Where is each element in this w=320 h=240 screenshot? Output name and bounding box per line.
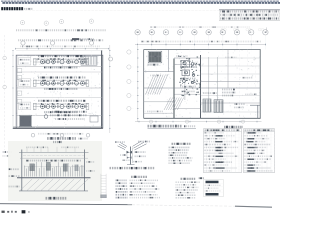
left plan interior column line e (64, 55, 66, 128)
schedule table left column lines (207, 129, 240, 173)
right plan room wall vertical 4 (216, 57, 218, 101)
right plan room wall vertical 1 (167, 50, 169, 72)
right plan room wall vertical 5 (227, 50, 229, 89)
schedule table left border (204, 129, 242, 173)
section top line (19, 151, 89, 153)
left plan bottom bubbles (31, 133, 35, 137)
left plan equipment row R3 bracket (33, 103, 36, 109)
left plan top grid bubbles (21, 41, 25, 45)
left plan top dimension text below (20, 45, 100, 47)
left plan top dimension text row 1 (16, 29, 106, 31)
right plan bottom dimension line (135, 121, 262, 123)
left plan equipment row R3 chain pipe (33, 106, 88, 108)
right plan corridor wall heavy 2 (200, 55, 202, 118)
section equipment strokes (25, 162, 83, 177)
scan noise left plan (16, 55, 103, 127)
riser detail caption (110, 167, 155, 169)
section left wall (21, 150, 23, 192)
left plan equipment row R3 label below (44, 111, 78, 113)
schedule table left row lines (204, 135, 242, 170)
left plan far-left text (3, 151, 12, 153)
right plan column line dashed a (238, 50, 240, 119)
left plan interior wall 2b (16, 97, 103, 99)
left plan interior column line c (91, 46, 93, 129)
section upper line 2 (20, 157, 88, 159)
left plan far-left bubble B (3, 85, 7, 89)
left plan interior wall 1 (16, 66, 103, 68)
right plan center dense cluster (179, 56, 201, 95)
ladder riser bar (100, 174, 102, 198)
section hatch below floor (20, 179, 88, 190)
right plan striped unit A (203, 99, 211, 112)
scan noise right plan (144, 50, 261, 118)
right plan top dimension text (141, 41, 261, 43)
left plan equipment row R3 label above (38, 100, 86, 102)
left plan equipment row R2 label below (44, 88, 78, 90)
section right wall (84, 150, 86, 192)
left plan top dimension text row 2 (18, 39, 104, 41)
mini title table bold row 2 (206, 193, 219, 196)
left plan equipment row R2 tank (19, 79, 31, 87)
left plan equipment row R2 bracket (33, 80, 36, 86)
left plan outline (16, 49, 103, 51)
right plan outer walls (144, 49, 261, 51)
schedule table right header row (245, 129, 274, 131)
section ceiling pipes (23, 154, 84, 156)
schedule table right cell text (244, 132, 261, 134)
left plan equipment row R1 label above (38, 55, 86, 57)
schedule table left cell text (204, 132, 223, 134)
riser detail right branch (133, 141, 147, 150)
left plan bottom wall heavy (13, 127, 103, 129)
left plan far-left bubble A (3, 56, 7, 60)
left plan far-left dashed gridline (4, 35, 6, 150)
left plan equipment row R3 pumps (40, 104, 44, 108)
right plan column dashes (138, 50, 252, 118)
binding strip top (1, 0, 279, 2)
section equipment dark blobs (30, 164, 35, 172)
revision table top-right (219, 9, 280, 11)
left plan bottom row dark equipment block (20, 116, 31, 126)
left plan top dimension line (15, 48, 109, 50)
left plan equipment row R1 valves (44, 61, 45, 64)
schedule table right row lines (244, 135, 275, 170)
left plan upper grid bubbles (20, 20, 24, 24)
riser detail left branch (118, 143, 128, 150)
section floor line (17, 177, 91, 179)
footer rule left (0, 204, 132, 205)
notes2 rows (176, 181, 201, 183)
right plan header text specks (150, 26, 250, 28)
legend table rows (116, 179, 128, 181)
right plan title (148, 125, 182, 128)
left plan equipment row R2 chain pipe (33, 82, 88, 84)
section bottom line (19, 190, 88, 192)
left plan interior wall 2 (16, 87, 103, 89)
section area scan tint (8, 141, 102, 201)
schedule table right border (244, 129, 275, 173)
right plan room wall vertical 3 (208, 57, 210, 101)
section right small text (86, 161, 95, 163)
notes block rows (169, 146, 190, 148)
section equipment mid shelf (24, 166, 84, 168)
right plan stair hatch upper (146, 75, 168, 95)
right plan striped unit B (214, 100, 223, 113)
mini title table border (204, 180, 224, 197)
section riser stubs above (27, 147, 75, 153)
sheet title text (1, 7, 23, 10)
left plan interior wall 3 (16, 114, 103, 116)
riser detail foot marks (127, 164, 135, 166)
right plan room wall vertical 2 (184, 60, 186, 100)
riser detail trunk (130, 147, 132, 165)
right plan column line dashed d (156, 50, 158, 89)
section bottom title (46, 197, 67, 200)
right plan top grid bubbles (135, 30, 140, 35)
left plan dark label block (72, 38, 79, 40)
right plan bottom-right heavy corner (250, 104, 260, 106)
left plan equipment row R2 label above (38, 76, 86, 78)
schedule table right column lines (247, 129, 271, 173)
left plan interior column line d (35, 55, 37, 128)
mini title table bold row 1 (206, 181, 219, 184)
right plan stair hatch lower (164, 98, 184, 111)
right plan bottom dimension bubbles (149, 120, 152, 123)
left plan interior wall 1b (16, 71, 103, 73)
left plan title (47, 137, 76, 140)
section small title above (53, 141, 62, 143)
left plan equipment row R1 label below (44, 66, 78, 68)
footer page marks (2, 211, 5, 213)
approval stamps (221, 28, 224, 31)
left plan left dimension line (12, 50, 14, 129)
right plan top-left room dark block (149, 52, 161, 62)
left plan equipment row R2 valves (44, 82, 45, 85)
right plan interior horizontals (174, 57, 201, 59)
schedule table left header row (205, 129, 241, 131)
right plan column line dashed c (255, 66, 257, 88)
left plan bottom row text cluster (52, 111, 87, 113)
schedule table title (224, 126, 243, 128)
left plan interior column line a (22, 46, 24, 129)
left plan equipment row R3 tank (19, 102, 31, 110)
right plan left grid bubbles (127, 50, 131, 54)
riser detail valves (127, 151, 133, 154)
left plan right dimension line (109, 45, 111, 133)
left plan striped grille block (81, 56, 97, 65)
footer rule right (235, 206, 272, 207)
section equipment top text (26, 160, 81, 162)
left plan bottom row small marks (44, 115, 48, 119)
right plan left dimension line (137, 46, 139, 122)
notes2 header (181, 178, 196, 180)
left plan bottom dimension text (38, 133, 84, 135)
right plan scattered room labels (222, 89, 235, 91)
left plan equipment row R1 bracket (33, 59, 36, 65)
left plan right grid bubble (109, 57, 113, 61)
left plan interior column line b (52, 46, 54, 129)
left plan left-wall equipment stack (17, 69, 22, 73)
left plan equipment row R1 pumps (40, 60, 44, 64)
right plan top dimension line (135, 44, 266, 46)
left plan equipment row R2 pumps (40, 81, 44, 85)
legend table header (131, 176, 147, 178)
mini title table row lines (204, 184, 224, 192)
right plan column line dashed b (247, 50, 249, 89)
section left level labels (9, 168, 20, 170)
riser detail side texts (135, 151, 146, 153)
left plan equipment row R1 tank (19, 57, 31, 65)
notes block header (172, 143, 191, 145)
legend table row lines (115, 182, 164, 196)
header rule (21, 10, 219, 12)
left plan equipment row R1 chain pipe (33, 61, 88, 63)
footer rule middle (132, 205, 252, 207)
left plan equipment row R3 valves (44, 105, 45, 108)
right plan corridor wall heavy (173, 59, 175, 119)
right plan top-left room label (148, 64, 159, 66)
mini title table tiny text left (199, 177, 204, 179)
mini title table faint rows (205, 184, 221, 186)
